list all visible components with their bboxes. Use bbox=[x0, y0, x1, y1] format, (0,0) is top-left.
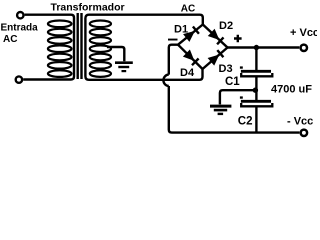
svg-text:D4: D4 bbox=[180, 67, 195, 79]
svg-text:D1: D1 bbox=[174, 23, 188, 35]
svg-text:4700 uF: 4700 uF bbox=[271, 83, 312, 95]
capacitor C2 bottom plate tray bbox=[241, 103, 272, 106]
svg-text:C1: C1 bbox=[225, 76, 240, 88]
wire secondary axis + top wire to bridge + bottom wire to bridge bbox=[85, 15, 202, 80]
capacitor C2 polarity mark bbox=[240, 96, 243, 98]
diode D3 bbox=[208, 55, 220, 66]
transformer core line 1 bbox=[76, 13, 78, 79]
terminal + Vcc bbox=[301, 45, 307, 51]
terminal - Vcc bbox=[301, 130, 307, 136]
junction node at positive rail bbox=[254, 45, 259, 50]
svg-text:AC: AC bbox=[3, 34, 17, 45]
wire negative rail (left vertical + bottom horizontal) bbox=[169, 86, 300, 133]
ground G2 bar 3 bbox=[218, 113, 224, 115]
wire midpoint to ground G2 bbox=[220, 90, 254, 104]
capacitor C2 top plate bbox=[241, 100, 271, 103]
wire left vertex down to negative rail (upper part, with hop) bbox=[169, 45, 178, 75]
terminal input bottom bbox=[16, 76, 22, 82]
wire C2 top lead bbox=[255, 90, 257, 100]
svg-text:AC: AC bbox=[181, 3, 195, 14]
diode D2 bbox=[208, 29, 220, 40]
wire center tap to ground bbox=[107, 47, 124, 61]
bridge edge left-bottom bbox=[178, 45, 203, 69]
bridge edge top-right bbox=[203, 25, 228, 48]
label plus at bridge bbox=[234, 35, 242, 43]
svg-text:D3: D3 bbox=[219, 63, 233, 75]
capacitor C1 polarity mark bbox=[240, 66, 243, 68]
wire C1 bottom lead bbox=[255, 77, 257, 90]
bridge edge bottom-right bbox=[203, 48, 228, 70]
terminal input top bbox=[17, 12, 23, 18]
svg-text:C2: C2 bbox=[238, 115, 253, 127]
transformer primary winding L1 loops bbox=[48, 21, 72, 77]
transformer core line 2 bbox=[80, 13, 82, 79]
svg-text:+ Vcc: + Vcc bbox=[290, 27, 317, 39]
ground G1 bar 3 bbox=[122, 70, 127, 72]
ground G2 bar 1 bbox=[210, 105, 231, 108]
ground G1 bar 2 bbox=[118, 66, 129, 68]
junction node at capacitor midpoint bbox=[253, 88, 258, 93]
svg-text:Transformador: Transformador bbox=[51, 1, 125, 13]
bridge edge left-top bbox=[178, 25, 203, 45]
ground G2 bar 2 bbox=[214, 109, 227, 112]
diode D1 bbox=[183, 31, 195, 42]
capacitor C1 bottom plate tray bbox=[241, 73, 272, 76]
svg-text:Entrada: Entrada bbox=[1, 23, 39, 34]
svg-text:D2: D2 bbox=[219, 20, 233, 32]
diode D4 bbox=[183, 50, 195, 61]
svg-text:- Vcc: - Vcc bbox=[287, 116, 313, 128]
wire C2 bottom lead bbox=[255, 107, 257, 132]
label minus at bridge bbox=[168, 39, 178, 41]
wire hop over secondary bottom wire bbox=[163, 75, 168, 86]
wire positive rail bbox=[228, 46, 300, 48]
ground G1 bar 1 bbox=[115, 61, 133, 64]
transformer secondary winding L2 loops bbox=[90, 21, 111, 77]
wire C1 top lead bbox=[255, 48, 257, 71]
wire primary top + primary axis + primary bottom bbox=[23, 15, 74, 80]
capacitor C1 top plate bbox=[241, 70, 271, 73]
